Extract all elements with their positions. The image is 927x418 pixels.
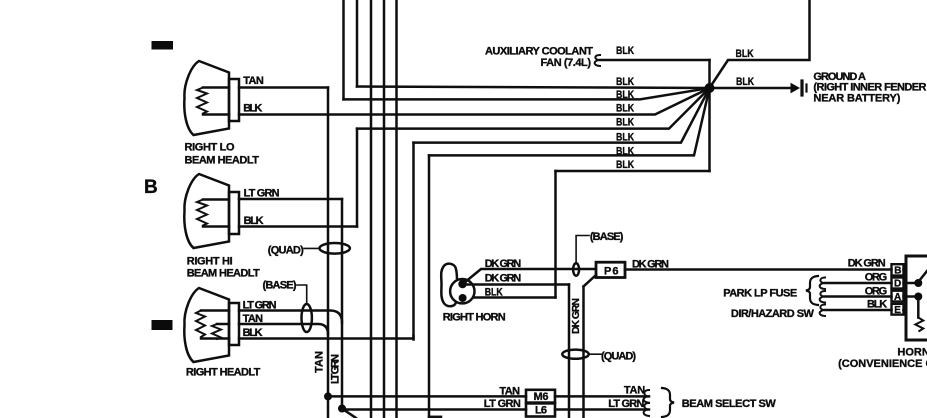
wire BLK dir/hazard sw [825,309,892,312]
wire TAN from M6 to beam select [555,395,649,398]
wire LT GRN from L6 to beam select [555,408,649,411]
connector ellipse (QUAD) on DK GRN pair [562,350,588,359]
lamp RIGHT HEADLT filament stub LT GRN [201,309,229,312]
wire BLK W6 to ground junction [429,88,710,155]
connector ellipse (BASE) on headlamp wires [302,304,312,332]
relay coil zigzag [915,318,923,332]
pointer (BASE) label 2 [576,236,589,264]
svg-text:BLK: BLK [867,299,887,311]
svg-text:RIGHT HORN: RIGHT HORN [443,312,506,324]
connector hook LT GRN beam select [644,403,649,416]
svg-text:BLK: BLK [244,215,264,227]
svg-text:HORN R: HORN R [897,347,927,359]
wire TAN to M6 [328,395,526,398]
wire diagonal P6 to QUAD branch [584,275,597,287]
wire GROUND A lead [710,87,793,90]
svg-text:DK GRN: DK GRN [570,298,582,334]
svg-text:FAN (7.4L): FAN (7.4L) [541,57,592,69]
wire vertical LT GRN bus x=342 [341,199,344,409]
lamp RIGHT HEADLT filament zigzag 1 [196,311,205,338]
terminal box B [892,264,904,275]
lamp RIGHT HEADLT filament stub BLK bottom [201,337,229,340]
pointer (QUAD) label 1 [304,247,320,249]
wire LT GRN to L6 [342,408,526,411]
junction TAN splice [324,392,332,400]
wire vertical pass-through x=371 [370,0,373,418]
wire diagonal LT GRN tail bottom [342,409,356,418]
connector ellipse (BASE) at P6 [573,263,579,275]
svg-text:DIR/HAZARD SW: DIR/HAZARD SW [731,308,815,320]
wire vertical x=709.5 junction riser [708,60,711,171]
svg-text:ORG: ORG [865,272,887,284]
ground symbol GROUND A [791,84,799,93]
svg-text:(CONVENIENCE CE: (CONVENIENCE CE [838,358,927,370]
svg-text:BLK: BLK [616,132,635,144]
junction LT GRN splice [338,405,346,413]
svg-text:NEAR BATTERY): NEAR BATTERY) [813,93,900,105]
lamp RIGHT LO BEAM HEADLT filament stub top [203,86,229,89]
svg-text:(QUAD): (QUAD) [601,351,636,363]
wire vertical DK GRN x=569 [568,285,571,418]
wire vertical top bundle x=343.5 [342,0,345,99]
relay stub B [904,268,907,271]
lamp RIGHT LO BEAM HEADLT filament stub bottom [203,113,229,116]
relay contact dot A [914,293,922,301]
svg-text:B: B [894,265,901,276]
svg-text:RIGHT LO: RIGHT LO [185,142,235,154]
svg-text:BLK: BLK [616,146,635,158]
wire LT GRN from RIGHT HEADLT merging into x=342 bus [239,311,342,323]
wire vertical x=555.5 (horn BLK riser) [554,171,557,298]
svg-text:BLK: BLK [243,103,262,115]
wire BLK W4 to ground junction [357,88,710,129]
svg-text:TAN: TAN [499,386,520,398]
connector hook BLK dir/hazard [820,305,825,317]
wire TAN from RIGHT HEADLT merging into x=328 bus [239,324,328,334]
wire BLK W7 bottom of fan [556,170,710,173]
relay stub A [904,295,915,298]
wire BLK from RIGHT HEADLT [239,336,414,339]
connector hook aux fan [595,55,600,66]
horn relay convenience-center box [906,256,927,340]
svg-text:BEAM HEADLT: BEAM HEADLT [187,268,260,280]
box P6 [596,262,625,277]
svg-text:TAN: TAN [243,75,264,87]
wire ORG park lp fuse 2 [825,295,892,298]
pointer (BASE) label 1 [297,285,307,304]
relay stub D [904,282,915,285]
svg-text:(QUAD): (QUAD) [268,245,304,257]
box L6 [526,403,555,416]
svg-text:BLK: BLK [736,76,755,88]
lamp RIGHT LO BEAM HEADLT body [184,61,229,135]
svg-text:TAN: TAN [314,351,326,373]
lamp RIGHT HEADLT connector [229,303,239,345]
wire BLK from horn to riser [466,296,556,299]
lamp RIGHT LO BEAM HEADLT connector [229,79,239,121]
marker bar bottom-left [152,320,173,330]
svg-text:M6: M6 [534,391,549,403]
brace PARK LP FUSE [806,276,818,305]
svg-text:LT GRN: LT GRN [484,398,521,410]
svg-text:LT GRN: LT GRN [244,188,280,200]
svg-text:BEAM HEADLT: BEAM HEADLT [185,155,260,167]
wire AUXILIARY COOLANT FAN BLK [600,59,710,62]
brace BEAM SELECT SW [662,388,674,417]
wire vertical pass-through x=396.5 [395,0,398,418]
relay contact dot D [914,279,922,287]
svg-text:A: A [894,292,901,303]
svg-text:LT GRN: LT GRN [243,300,277,312]
wire ORG park lp fuse 1 [825,282,892,285]
horn RIGHT HORN trumpet blob [441,264,457,307]
lamp RIGHT HI BEAM HEADLT filament stub top [203,198,229,201]
wire vertical DK GRN x=583.5 [582,287,585,418]
relay contact arm [919,271,927,281]
wire BLK W5 to ground junction [414,88,710,143]
svg-text:D: D [894,279,901,290]
svg-text:BEAM SELECT SW: BEAM SELECT SW [682,398,777,410]
lamp RIGHT HI BEAM HEADLT body [184,174,229,248]
svg-text:TAN: TAN [624,385,645,397]
terminal box A [892,291,904,302]
svg-text:DK GRN: DK GRN [632,259,669,271]
lamp RIGHT HEADLT body [184,288,229,362]
svg-text:DK GRN: DK GRN [848,258,886,270]
horn RIGHT HORN circle [450,279,474,303]
wire BLK from hi-beam lamp [239,225,357,228]
svg-text:BLK: BLK [616,103,635,115]
svg-text:BLK: BLK [243,327,263,339]
svg-text:(BASE): (BASE) [590,231,624,243]
connector hook ORG 2 [820,291,825,303]
pointer (QUAD) label 2 [589,353,601,355]
wire LT GRN from hi-beam lamp [239,198,342,201]
relay coil lead [917,301,920,318]
svg-text:ORG: ORG [865,286,887,298]
lamp RIGHT LO BEAM HEADLT filament zigzag [197,88,207,114]
svg-text:RIGHT HI: RIGHT HI [187,256,233,268]
svg-text:(BASE): (BASE) [263,280,297,292]
wire vertical x=429 to bottom [428,155,431,418]
svg-text:BLK: BLK [616,89,635,101]
lamp RIGHT HI BEAM HEADLT filament stub bottom [203,225,229,228]
svg-text:BLK: BLK [616,159,635,171]
wire BLK W1 to ground junction [357,87,710,89]
svg-text:LT GRN: LT GRN [330,354,342,384]
connector hook TAN beam select [644,390,649,403]
wire vertical TAN bus x=328 [327,88,330,418]
lamp RIGHT HI BEAM HEADLT filament zigzag [197,200,207,226]
wire vertical x=414 (BLK of RIGHT HEADLT) [412,143,415,340]
horn terminal dot bottom [459,294,467,302]
svg-text:P6: P6 [604,266,619,278]
wire bottom edge stub [429,416,441,418]
horn terminal dot top [458,280,467,289]
svg-text:AUXILIARY COOLANT: AUXILIARY COOLANT [485,46,593,58]
wire vertical pass-through x=384 [383,0,386,418]
connector ellipse (QUAD) on TAN/LT GRN buses [320,243,350,254]
svg-text:TAN: TAN [243,313,264,325]
lamp RIGHT HI BEAM HEADLT connector [229,192,239,234]
svg-text:BLK: BLK [616,76,635,88]
lamp RIGHT HEADLT filament zigzag 2 [212,324,221,339]
wire DK GRN from P6 to horn relay B [625,268,892,271]
svg-text:B: B [144,177,158,198]
lamp RIGHT HEADLT filament stub TAN [217,323,229,326]
wire BLK W2 to ground junction [344,88,710,99]
marker bar top-left [152,41,174,50]
wire BLK branch from junction to top right [710,0,810,88]
terminal box D [892,278,904,289]
junction ground splice [705,83,715,93]
svg-text:RIGHT HEADLT: RIGHT HEADLT [186,367,261,379]
wire DK GRN horn feed [464,269,595,283]
svg-text:BLK: BLK [616,117,635,129]
svg-text:E: E [894,305,901,316]
svg-text:PARK LP FUSE: PARK LP FUSE [723,288,797,300]
wire vertical BLK x=357 lower segment [356,129,359,227]
svg-text:BLK: BLK [736,48,755,60]
wire vertical top bundle x=357 [356,0,359,87]
svg-text:DK GRN: DK GRN [485,258,522,270]
wire DK GRN horn second [466,283,569,286]
svg-text:BLK: BLK [616,45,635,57]
svg-text:L6: L6 [535,405,547,417]
svg-text:DK GRN: DK GRN [485,273,522,285]
terminal box E [892,304,904,315]
svg-text:BLK: BLK [485,287,504,299]
connector hook ORG 1 [820,278,825,290]
wire TAN from lo-beam lamp [239,86,328,89]
box M6 [526,390,555,403]
svg-text:LT GRN: LT GRN [608,398,644,410]
wire BLK from lo-beam lamp (to ground fan W3) [239,88,710,115]
relay stub E [904,309,907,312]
